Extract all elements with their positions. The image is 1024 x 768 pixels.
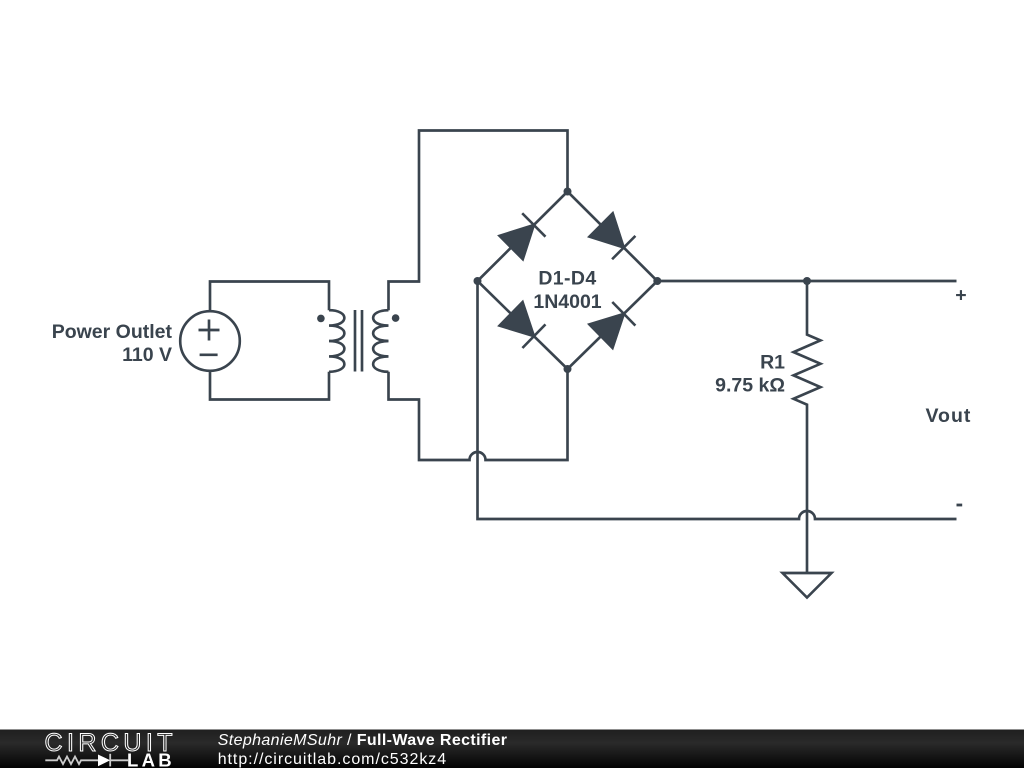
svg-text:Power Outlet: Power Outlet — [52, 321, 173, 343]
svg-text:StephanieMSuhr / Full-Wave Rec: StephanieMSuhr / Full-Wave Rectifier — [218, 732, 508, 749]
svg-text:1N4001: 1N4001 — [533, 291, 601, 313]
svg-text:9.75 kΩ: 9.75 kΩ — [715, 374, 785, 396]
svg-text:http://circuitlab.com/c532kz4: http://circuitlab.com/c532kz4 — [218, 751, 447, 768]
svg-text:D1-D4: D1-D4 — [538, 268, 596, 290]
svg-text:Vout: Vout — [926, 405, 972, 427]
svg-text:+: + — [955, 285, 966, 307]
svg-text:LAB: LAB — [127, 750, 175, 768]
svg-text:R1: R1 — [760, 352, 785, 374]
svg-text:110 V: 110 V — [122, 344, 172, 366]
